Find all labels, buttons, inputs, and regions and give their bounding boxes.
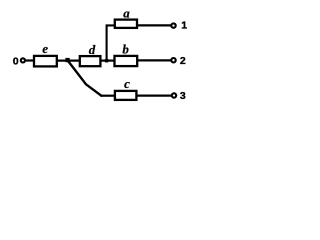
box c	[115, 91, 136, 100]
wire box b to node 2	[137, 59, 171, 61]
riser wire up to box a	[107, 25, 115, 60]
node 3 circle	[172, 93, 176, 97]
svg-text:3: 3	[180, 90, 186, 102]
junction dot	[65, 58, 69, 62]
svg-text:b: b	[122, 42, 129, 57]
wire box a to node 1	[137, 24, 171, 26]
svg-text:e: e	[42, 41, 48, 56]
svg-text:1: 1	[181, 20, 187, 32]
box e	[34, 56, 57, 67]
node 2 circle	[171, 58, 175, 62]
svg-text:d: d	[89, 42, 96, 57]
junction dot at riser	[105, 59, 108, 62]
wire box c to node 3	[136, 94, 171, 96]
wire box d to box b	[100, 59, 114, 61]
wire box e to box d	[57, 59, 80, 61]
svg-text:2: 2	[180, 55, 186, 67]
node 0 circle	[21, 58, 25, 62]
svg-text:c: c	[124, 76, 130, 91]
wire node 0 to box e	[25, 59, 34, 61]
svg-text:0: 0	[13, 56, 19, 68]
box b	[115, 56, 138, 66]
wire diagonal to box c	[101, 95, 116, 97]
svg-text:a: a	[123, 6, 130, 21]
box d	[80, 56, 101, 66]
box a	[115, 20, 137, 28]
node 1 circle	[171, 23, 175, 27]
diagonal wire to bottom row	[68, 61, 102, 96]
